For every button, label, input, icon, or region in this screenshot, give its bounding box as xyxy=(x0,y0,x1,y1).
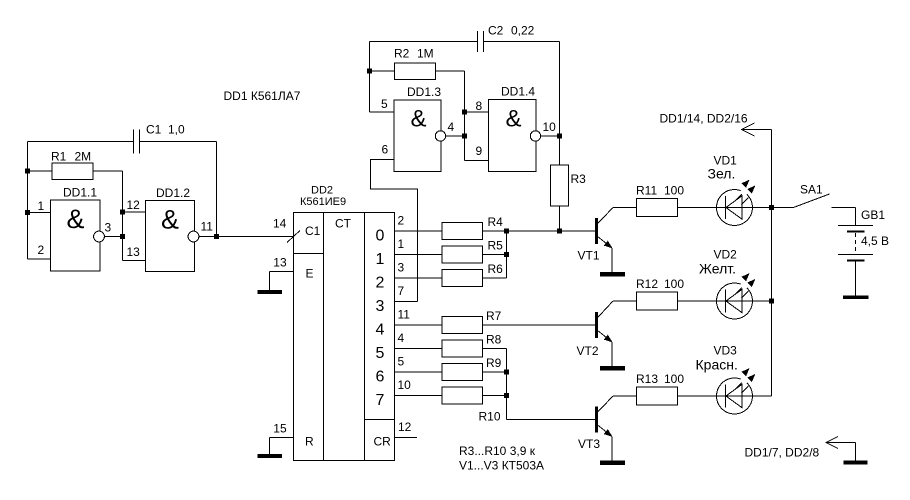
svg-text:R7: R7 xyxy=(486,309,502,323)
svg-text:E: E xyxy=(306,267,314,281)
svg-text:CT: CT xyxy=(335,217,352,231)
svg-text:1,0: 1,0 xyxy=(168,123,185,137)
svg-text:12: 12 xyxy=(127,198,141,212)
svg-text:R12: R12 xyxy=(636,277,658,291)
svg-text:GB1: GB1 xyxy=(861,208,885,222)
svg-text:3: 3 xyxy=(376,298,385,315)
svg-text:VT2: VT2 xyxy=(577,344,599,358)
svg-text:C2: C2 xyxy=(488,24,504,38)
svg-text:R13: R13 xyxy=(636,372,658,386)
svg-text:DD1.4: DD1.4 xyxy=(501,85,535,99)
svg-text:15: 15 xyxy=(273,422,287,436)
svg-text:DD1.3: DD1.3 xyxy=(407,85,441,99)
svg-text:11: 11 xyxy=(201,220,214,234)
svg-text:11: 11 xyxy=(398,308,411,322)
svg-text:Красн.: Красн. xyxy=(696,357,738,373)
svg-text:100: 100 xyxy=(664,277,684,291)
svg-text:C1: C1 xyxy=(305,224,321,238)
svg-text:13: 13 xyxy=(273,256,287,270)
svg-text:3: 3 xyxy=(398,261,405,275)
svg-text:100: 100 xyxy=(664,184,684,198)
svg-text:К561ИЕ9: К561ИЕ9 xyxy=(300,196,346,208)
svg-text:12: 12 xyxy=(398,420,412,434)
svg-text:0,22: 0,22 xyxy=(511,24,535,38)
svg-text:4,5 В: 4,5 В xyxy=(861,234,889,248)
svg-text:Зел.: Зел. xyxy=(708,166,736,182)
svg-text:4: 4 xyxy=(376,322,385,339)
svg-text:V1...V3 КТ503А: V1...V3 КТ503А xyxy=(459,459,544,473)
svg-text:14: 14 xyxy=(273,217,287,231)
svg-text:R10: R10 xyxy=(479,410,501,424)
svg-text:0: 0 xyxy=(376,228,385,245)
svg-text:DD1/14, DD2/16: DD1/14, DD2/16 xyxy=(660,112,748,126)
svg-text:10: 10 xyxy=(543,120,557,134)
svg-text:1M: 1M xyxy=(417,47,434,61)
svg-text:9: 9 xyxy=(476,144,483,158)
svg-text:10: 10 xyxy=(398,378,412,392)
svg-text:3: 3 xyxy=(105,221,112,235)
svg-text:1: 1 xyxy=(376,251,385,268)
svg-text:DD1.1: DD1.1 xyxy=(63,186,97,200)
svg-text:4: 4 xyxy=(398,331,405,345)
svg-text:2: 2 xyxy=(38,243,45,257)
svg-text:SA1: SA1 xyxy=(800,183,823,197)
svg-text:VT1: VT1 xyxy=(578,249,600,263)
svg-text:VT3: VT3 xyxy=(578,437,600,451)
svg-text:CR: CR xyxy=(374,435,392,449)
svg-text:R8: R8 xyxy=(486,333,502,347)
svg-text:7: 7 xyxy=(376,392,385,409)
svg-text:DD1.2: DD1.2 xyxy=(156,186,190,200)
svg-text:4: 4 xyxy=(448,120,455,134)
svg-text:DD1 К561ЛА7: DD1 К561ЛА7 xyxy=(224,89,301,103)
svg-text:2: 2 xyxy=(376,275,385,292)
svg-text:5: 5 xyxy=(398,355,405,369)
svg-text:R: R xyxy=(305,435,314,449)
svg-text:&: & xyxy=(410,106,426,133)
svg-text:R3...R10 3,9 к: R3...R10 3,9 к xyxy=(459,444,536,458)
svg-text:R2: R2 xyxy=(394,47,410,61)
svg-text:R9: R9 xyxy=(486,356,502,370)
svg-text:5: 5 xyxy=(376,345,385,362)
svg-text:VD2: VD2 xyxy=(714,248,738,262)
svg-text:&: & xyxy=(66,204,84,234)
svg-text:DD1/7, DD2/8: DD1/7, DD2/8 xyxy=(745,446,820,460)
svg-text:2M: 2M xyxy=(75,150,92,164)
svg-text:5: 5 xyxy=(381,97,388,111)
svg-text:7: 7 xyxy=(398,284,405,298)
svg-text:R11: R11 xyxy=(636,184,657,198)
svg-text:13: 13 xyxy=(127,245,141,259)
svg-text:1: 1 xyxy=(398,237,405,251)
svg-text:6: 6 xyxy=(382,143,389,157)
svg-text:C1: C1 xyxy=(146,123,162,137)
svg-text:R4: R4 xyxy=(488,215,504,229)
svg-text:6: 6 xyxy=(376,369,385,386)
svg-text:R5: R5 xyxy=(488,239,504,253)
svg-text:2: 2 xyxy=(398,214,405,228)
svg-text:VD3: VD3 xyxy=(714,344,738,358)
svg-text:&: & xyxy=(505,106,521,133)
svg-text:Желт.: Желт. xyxy=(699,261,736,277)
svg-text:R3: R3 xyxy=(571,172,587,186)
svg-text:DD2: DD2 xyxy=(311,185,333,197)
svg-text:8: 8 xyxy=(476,99,483,113)
svg-text:&: & xyxy=(161,205,179,235)
svg-text:1: 1 xyxy=(38,199,45,213)
svg-text:R6: R6 xyxy=(488,262,504,276)
svg-text:100: 100 xyxy=(664,372,684,386)
svg-text:R1: R1 xyxy=(51,150,67,164)
